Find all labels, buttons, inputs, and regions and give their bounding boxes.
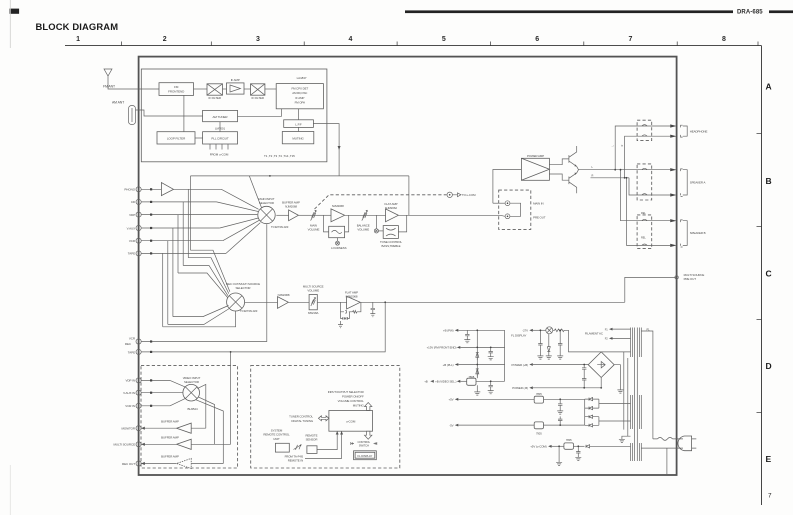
AM loop antenna (129, 106, 136, 125)
wire to LA1837 (265, 88, 276, 90)
svg-text:LA1837: LA1837 (297, 76, 307, 80)
svg-text:3: 3 (256, 36, 260, 43)
CD wire (141, 201, 216, 203)
svg-text:VCR IN: VCR IN (125, 404, 135, 408)
svg-text:IF AMP: IF AMP (231, 78, 240, 82)
routing bundle vertical 7 (191, 176, 230, 292)
multi source feed from flat amp 2 (230, 352, 232, 444)
speaker A terminal bracket (681, 169, 683, 197)
svg-text:POWER ON/OFF: POWER ON/OFF (342, 394, 364, 398)
svg-text:TUNER CONTROL: TUNER CONTROL (289, 414, 313, 418)
svg-text:NJM2068: NJM2068 (332, 204, 344, 208)
hollow arrow bottom (365, 431, 372, 439)
wire frontend down to loop filter (183, 95, 185, 131)
PHONO jack (136, 187, 141, 192)
zener D3 (546, 334, 552, 359)
svg-text:VDP IN: VDP IN (126, 379, 135, 383)
svg-text:R: R (592, 173, 594, 177)
svg-text:A: A (766, 82, 772, 92)
svg-text:MAIN IN: MAIN IN (533, 202, 543, 206)
wire AM tuner to LA1837 (238, 109, 282, 117)
PLL control pins (210, 144, 228, 150)
VDP jack (136, 212, 141, 217)
hollow arrow left-right (318, 416, 329, 421)
svg-text:REL: REL (641, 237, 646, 240)
right ruler ticks (757, 134, 762, 413)
remote waves (294, 444, 302, 450)
svg-text:F2: F2 (605, 337, 609, 341)
svg-text:5: 5 (442, 36, 446, 43)
svg-text:L: L (611, 145, 614, 147)
wire to IF amp (223, 88, 227, 90)
svg-text:FILAMENT AC: FILAMENT AC (585, 332, 603, 336)
svg-text:R: R (621, 145, 624, 147)
transformer primary winding (631, 328, 642, 358)
speaker B terminal bracket (681, 220, 683, 247)
transistor Q1 (569, 146, 577, 166)
jumper link (510, 203, 521, 216)
svg-text:SPEAKER A: SPEAKER A (690, 180, 706, 184)
FM FRONTEND box (159, 83, 194, 96)
wire FM ant to frontend (108, 84, 159, 89)
R line to speaker A low contact (629, 178, 637, 195)
svg-text:POWER AMP: POWER AMP (527, 154, 544, 158)
svg-text:SENSOR: SENSOR (306, 438, 318, 442)
reg ground (556, 446, 562, 465)
svg-text:UNIT: UNIT (273, 437, 280, 441)
video block dashed outline (141, 366, 238, 468)
loudness filter box (329, 226, 345, 237)
TAPE REC jack (136, 349, 141, 354)
psu bus vertical (476, 330, 478, 378)
svg-text:VCR: VCR (129, 337, 136, 341)
svg-text:MUTING: MUTING (353, 403, 365, 407)
svg-text:8: 8 (722, 36, 726, 43)
svg-text:FL DISPLAY: FL DISPLAY (358, 454, 373, 458)
svg-text:BH3544: BH3544 (188, 407, 198, 411)
svg-text:INPUT/OUTPUT SELECTOR: INPUT/OUTPUT SELECTOR (328, 390, 364, 394)
svg-text:CD: CD (131, 200, 136, 204)
svg-text:HEADPHONE: HEADPHONE (690, 129, 708, 133)
wire remote in to ucom (305, 431, 342, 458)
routing bundle vertical 5 (183, 202, 228, 296)
VCR IN jack (136, 403, 141, 408)
AC plug (678, 436, 692, 451)
svg-text:VOLUME: VOLUME (307, 289, 319, 293)
svg-text:7: 7 (768, 493, 772, 500)
svg-text:D: D (766, 361, 772, 371)
wire amp2 to balance (345, 214, 362, 216)
PRE OUT contact (501, 215, 505, 216)
wire selector to buffer (276, 214, 288, 216)
wire buffer to volume (298, 214, 311, 216)
svg-text:+B (PW): +B (PW) (443, 329, 454, 333)
svg-text:SWITCH: SWITCH (359, 444, 369, 448)
tone branch right (398, 215, 406, 232)
svg-text:AM TUNER: AM TUNER (213, 115, 229, 119)
routing bundle vertical 2 (168, 241, 230, 325)
speaker A relay RL2 (637, 164, 652, 200)
VDP wire (141, 214, 257, 216)
wire sensor to ucom (317, 431, 337, 449)
MUTING box (282, 132, 314, 144)
header bar right (769, 10, 793, 13)
svg-text:VOLUME: VOLUME (357, 228, 369, 232)
svg-text:T1 ,T2 ,T3 ,T4 ,T14 ,T15: T1 ,T2 ,T3 ,T4 ,T14 ,T15 (264, 154, 295, 158)
power transformer T1 core (635, 328, 638, 462)
svg-text:7: 7 (629, 36, 633, 43)
svg-text:POWER (+B): POWER (+B) (512, 363, 529, 367)
svg-text:IF FILTER: IF FILTER (208, 96, 220, 100)
buffer amp 2 (278, 297, 289, 309)
ms volume pot box (309, 295, 317, 310)
primary return wire (666, 448, 668, 475)
capacitor C2 to ground (488, 347, 494, 360)
svg-text:2: 2 (163, 36, 167, 43)
svg-text:VOLUME CONTROL: VOLUME CONTROL (338, 399, 364, 403)
regulator 7905 (534, 422, 543, 429)
wire flat amp to pre out (398, 214, 500, 216)
resistor R1 (553, 329, 566, 332)
diode join wiring (585, 399, 631, 425)
flat amp 2 (347, 296, 361, 309)
svg-text:POWER (-B): POWER (-B) (512, 386, 528, 390)
svg-text:6: 6 (535, 36, 539, 43)
flat amp 2 feedback network (341, 302, 361, 313)
speaker A arrows (670, 168, 676, 197)
wire AM tuner down to PLL (219, 122, 221, 132)
wire to upper transistor (549, 159, 569, 165)
phono wire to corner (174, 189, 259, 209)
TAPE wire (141, 252, 226, 254)
svg-text:+5V: +5V (449, 398, 454, 402)
tone control box (383, 226, 398, 239)
svg-text:TO u-COM: TO u-COM (462, 193, 476, 197)
wire ms volume to flat amp 2 (317, 301, 346, 303)
rectifier diode D4 (585, 398, 599, 401)
VCR jack (136, 238, 141, 243)
tone amp 2 (331, 209, 345, 222)
headphone relay RL1 (637, 120, 652, 140)
svg-text:SPEAKER B: SPEAKER B (690, 231, 706, 235)
svg-text:DRA-685: DRA-685 (737, 10, 763, 16)
svg-text:NJM2068: NJM2068 (278, 293, 290, 297)
svg-text:PLL CIRCUIT: PLL CIRCUIT (211, 137, 229, 141)
wire flat amp 2 output (360, 301, 625, 303)
CD jack (136, 199, 141, 204)
vertical join at 408.9 (408, 176, 410, 215)
svg-text:-5V: -5V (449, 423, 453, 427)
svg-text:BUFFER AMP: BUFFER AMP (161, 419, 179, 423)
svg-text:BUFFER AMP: BUFFER AMP (161, 455, 179, 459)
svg-text:1: 1 (76, 36, 80, 43)
svg-text:L: L (592, 165, 594, 169)
selector outputs (197, 384, 206, 428)
AM TUNER box (203, 110, 238, 121)
V.AUX jack (136, 225, 141, 230)
wire main in to power amp (493, 170, 522, 204)
diode D8 (586, 445, 631, 448)
svg-text:FRONTEND: FRONTEND (168, 89, 185, 93)
phono EQ amp (161, 183, 173, 196)
svg-text:REL: REL (641, 212, 646, 215)
routing bundle vertical 1 (162, 253, 164, 326)
main outer border (139, 57, 677, 475)
zener D2 (476, 369, 479, 377)
svg-text:-27V: -27V (522, 329, 528, 333)
tuner block outline (141, 69, 327, 162)
pilot lamp (546, 327, 553, 334)
filter capacitor C6 (582, 365, 586, 388)
right ruler line (761, 46, 763, 505)
ucom block dashed outline (251, 366, 400, 468)
svg-text:FM ANT: FM ANT (103, 85, 115, 89)
svg-text:+B (VIDEO SEL.): +B (VIDEO SEL.) (435, 380, 456, 384)
loudness branch left (324, 215, 329, 232)
svg-text:F1: F1 (605, 327, 609, 331)
VCR wire (141, 240, 223, 242)
LOOP FILTER box (157, 132, 195, 144)
output capacitor to ground (370, 302, 375, 317)
TO u-COM node (447, 192, 452, 197)
svg-text:+B (PLL): +B (PLL) (443, 363, 454, 367)
selector IC U2 (227, 293, 245, 311)
flat amp 1 (386, 209, 399, 222)
zener D1 (476, 352, 479, 360)
svg-text:TC9273N-023: TC9273N-023 (271, 225, 289, 229)
MULTI SOURCE jack (136, 442, 141, 447)
transistor Q2 (569, 173, 577, 193)
svg-text:TC9273N-023: TC9273N-023 (240, 309, 258, 313)
top ruler line (65, 45, 762, 47)
wire to lower transistor (549, 174, 569, 180)
svg-text:B: B (766, 176, 772, 186)
wire AM ant to tuner (136, 110, 203, 116)
long feed verticals (624, 352, 628, 436)
headphone jack terminal (681, 125, 683, 137)
loudness switch node (337, 238, 339, 242)
MAIN IN contact (493, 202, 505, 204)
svg-text:LM7001: LM7001 (215, 127, 225, 131)
wire loop filter to PLL (195, 137, 203, 139)
MONITOR jack (136, 426, 141, 431)
fuse F1 (658, 437, 673, 440)
svg-text:PRE OUT: PRE OUT (684, 277, 697, 281)
capacitor C5 (557, 330, 563, 359)
branch R to headphone relay (625, 136, 638, 178)
branches to speaker B (621, 170, 638, 221)
bridge top to transformer (601, 351, 630, 353)
header bar (405, 10, 733, 13)
power amp box U3 (521, 158, 549, 180)
svg-text:M5218A: M5218A (308, 311, 318, 315)
svg-text:AM ANT: AM ANT (112, 100, 124, 104)
svg-text:LOUDNESS: LOUDNESS (331, 246, 346, 250)
crop line left (9, 0, 11, 48)
capacitor C4 (537, 330, 543, 359)
svg-text:BASS,TREBLE: BASS,TREBLE (382, 244, 401, 248)
branch down to tape rec (141, 302, 385, 352)
svg-text:FM OPA: FM OPA (295, 100, 306, 104)
svg-text:REC: REC (125, 342, 132, 346)
svg-text:L.P.F: L.P.F (295, 122, 302, 126)
selector IC U1 (258, 206, 275, 223)
svg-text:TAPE: TAPE (128, 350, 135, 354)
FL DISPLAY box (354, 451, 377, 460)
u-COM box (329, 411, 373, 432)
svg-text:V.AUX: V.AUX (127, 226, 135, 230)
capacitor C1 to ground (464, 330, 470, 343)
bridge right to ground (614, 365, 623, 393)
svg-text:REC OUT: REC OUT (122, 462, 135, 466)
fan in from VCR (170, 398, 185, 405)
svg-text:V.AUX IN: V.AUX IN (123, 391, 135, 395)
loudness branch right (345, 215, 349, 232)
svg-text:PHONO: PHONO (124, 188, 135, 192)
VDP IN jack (136, 378, 141, 383)
rectifier diode D5 (585, 407, 599, 410)
wire selector2 to buffer2 (245, 301, 278, 303)
svg-text:u-COM: u-COM (346, 419, 356, 423)
phono wire (141, 188, 161, 190)
pre out / main in link box (499, 190, 531, 229)
wire volume to amp2 (317, 214, 332, 216)
PLL CIRCUIT box (203, 132, 238, 144)
transformer tertiary winding (631, 443, 642, 461)
svg-text:DIGITAL TUNING: DIGITAL TUNING (291, 419, 313, 423)
wire to IF filter 2 (244, 88, 251, 90)
svg-text:REMOTE IN: REMOTE IN (288, 459, 303, 463)
transformer secondary winding (631, 395, 642, 429)
tone branch node (375, 215, 377, 228)
svg-text:MONITOR: MONITOR (121, 427, 135, 431)
smoothing caps C7 C8 (557, 399, 563, 414)
svg-text:MULTI SOURCE: MULTI SOURCE (114, 443, 136, 447)
wire balance to flat amp (367, 214, 386, 216)
plug wires (641, 439, 683, 448)
IF FILTER 2 (251, 84, 265, 95)
svg-text:FM CPX DET: FM CPX DET (291, 87, 308, 91)
emitter join to L line (577, 166, 579, 173)
capacitor C9 (575, 446, 581, 460)
remote control unit box (275, 443, 289, 452)
arrow down on tuner wire (338, 146, 341, 150)
hollow arrow top (365, 403, 372, 411)
svg-text:VOLUME: VOLUME (308, 228, 320, 232)
MULTI SOURCE PRE OUT terminal (675, 276, 678, 279)
wire lamp circuit to transformer (566, 330, 601, 352)
svg-text:TAPE: TAPE (128, 252, 135, 256)
fan in from VDP (170, 380, 185, 387)
multi source pre out riser (625, 277, 677, 302)
wire LPF to muting (297, 127, 299, 131)
IF AMP (227, 83, 245, 94)
routing bundle vertical 4 (178, 215, 228, 298)
svg-text:CONTROL: CONTROL (358, 440, 371, 444)
speaker B relay RL3 (637, 215, 652, 249)
svg-text:C: C (766, 269, 772, 279)
svg-text:+13V (FM FRONT END): +13V (FM FRONT END) (427, 346, 457, 350)
wire LPF out to selector bus (313, 124, 339, 176)
buffer amp 1 (289, 210, 299, 221)
R output line (591, 177, 630, 179)
svg-text:4: 4 (349, 36, 353, 43)
svg-text:7805: 7805 (536, 392, 542, 396)
FM antenna (104, 69, 112, 84)
svg-text:7805: 7805 (566, 438, 572, 442)
svg-text:AM RF,OSC: AM RF,OSC (292, 91, 307, 95)
VCR REC jack (136, 339, 141, 344)
svg-text:E: E (766, 454, 772, 464)
svg-text:PRE OUT: PRE OUT (533, 216, 546, 220)
L output line (579, 169, 638, 171)
corner mark top-left (10, 9, 20, 14)
svg-text:VCR: VCR (129, 239, 136, 243)
MAIN VOLUME pot (311, 212, 317, 218)
rectifier diode D7 (585, 424, 599, 427)
wire buffer2 to ms volume (288, 301, 309, 303)
TAPE jack (136, 251, 141, 256)
diode bridge (588, 352, 614, 378)
svg-text:BUFFER AMP: BUFFER AMP (161, 436, 179, 440)
ruler ticks (121, 42, 758, 46)
selector2 output down (163, 311, 236, 327)
capacitor C3 to ground (488, 381, 494, 394)
branch L to headphone relay (615, 126, 637, 170)
tuner feed wire (191, 175, 409, 177)
V.AUX wire (141, 227, 220, 229)
svg-text:SELECTOR: SELECTOR (259, 201, 274, 205)
V.AUX IN jack (136, 390, 141, 395)
svg-text:BLOCK DIAGRAM: BLOCK DIAGRAM (36, 21, 119, 32)
svg-text:IF AMP: IF AMP (295, 96, 304, 100)
headphone arrows (670, 124, 676, 137)
svg-text:MUTING: MUTING (292, 136, 304, 140)
svg-text:SELECTOR: SELECTOR (184, 380, 199, 384)
routing bundle vertical 6 (188, 189, 229, 293)
KEY CONTROL SWITCH label (351, 442, 354, 445)
svg-text:7905: 7905 (536, 431, 542, 435)
right feed vertical (504, 330, 506, 381)
bridge bottom join (600, 387, 602, 389)
video selector IC (183, 384, 200, 401)
speaker B arrows (670, 219, 676, 247)
IC LA1837 detector (276, 84, 323, 109)
svg-text:LOOP FILTER: LOOP FILTER (167, 137, 186, 141)
L.P.F box (284, 120, 314, 128)
routing bundle vertical 3 (173, 228, 229, 317)
svg-text:SELECTOR: SELECTOR (236, 286, 251, 290)
REC OUT jack (136, 461, 141, 466)
BALANCE pot (362, 212, 367, 218)
svg-text:NJM2068: NJM2068 (285, 204, 297, 208)
remote sensor box (307, 446, 317, 454)
rectifier diode D6 (585, 415, 599, 418)
wire selector1 down to rec bus (141, 224, 267, 341)
svg-text:+B: +B (424, 379, 428, 383)
wire frontend to if filter (194, 88, 208, 90)
bus ground (474, 385, 480, 395)
svg-text:FL DISPLAY: FL DISPLAY (511, 333, 526, 337)
wire LA1837 to LPF (297, 109, 299, 120)
dashed wire volume to u-COM (315, 195, 447, 209)
IF FILTER 1 (207, 84, 223, 95)
svg-text:+5V (u-COM): +5V (u-COM) (530, 445, 547, 449)
svg-text:FROM u-COM: FROM u-COM (210, 153, 229, 157)
transformer center tap ground (619, 436, 631, 442)
svg-text:VDP: VDP (129, 213, 135, 217)
svg-text:IF FILTER: IF FILTER (251, 96, 263, 100)
